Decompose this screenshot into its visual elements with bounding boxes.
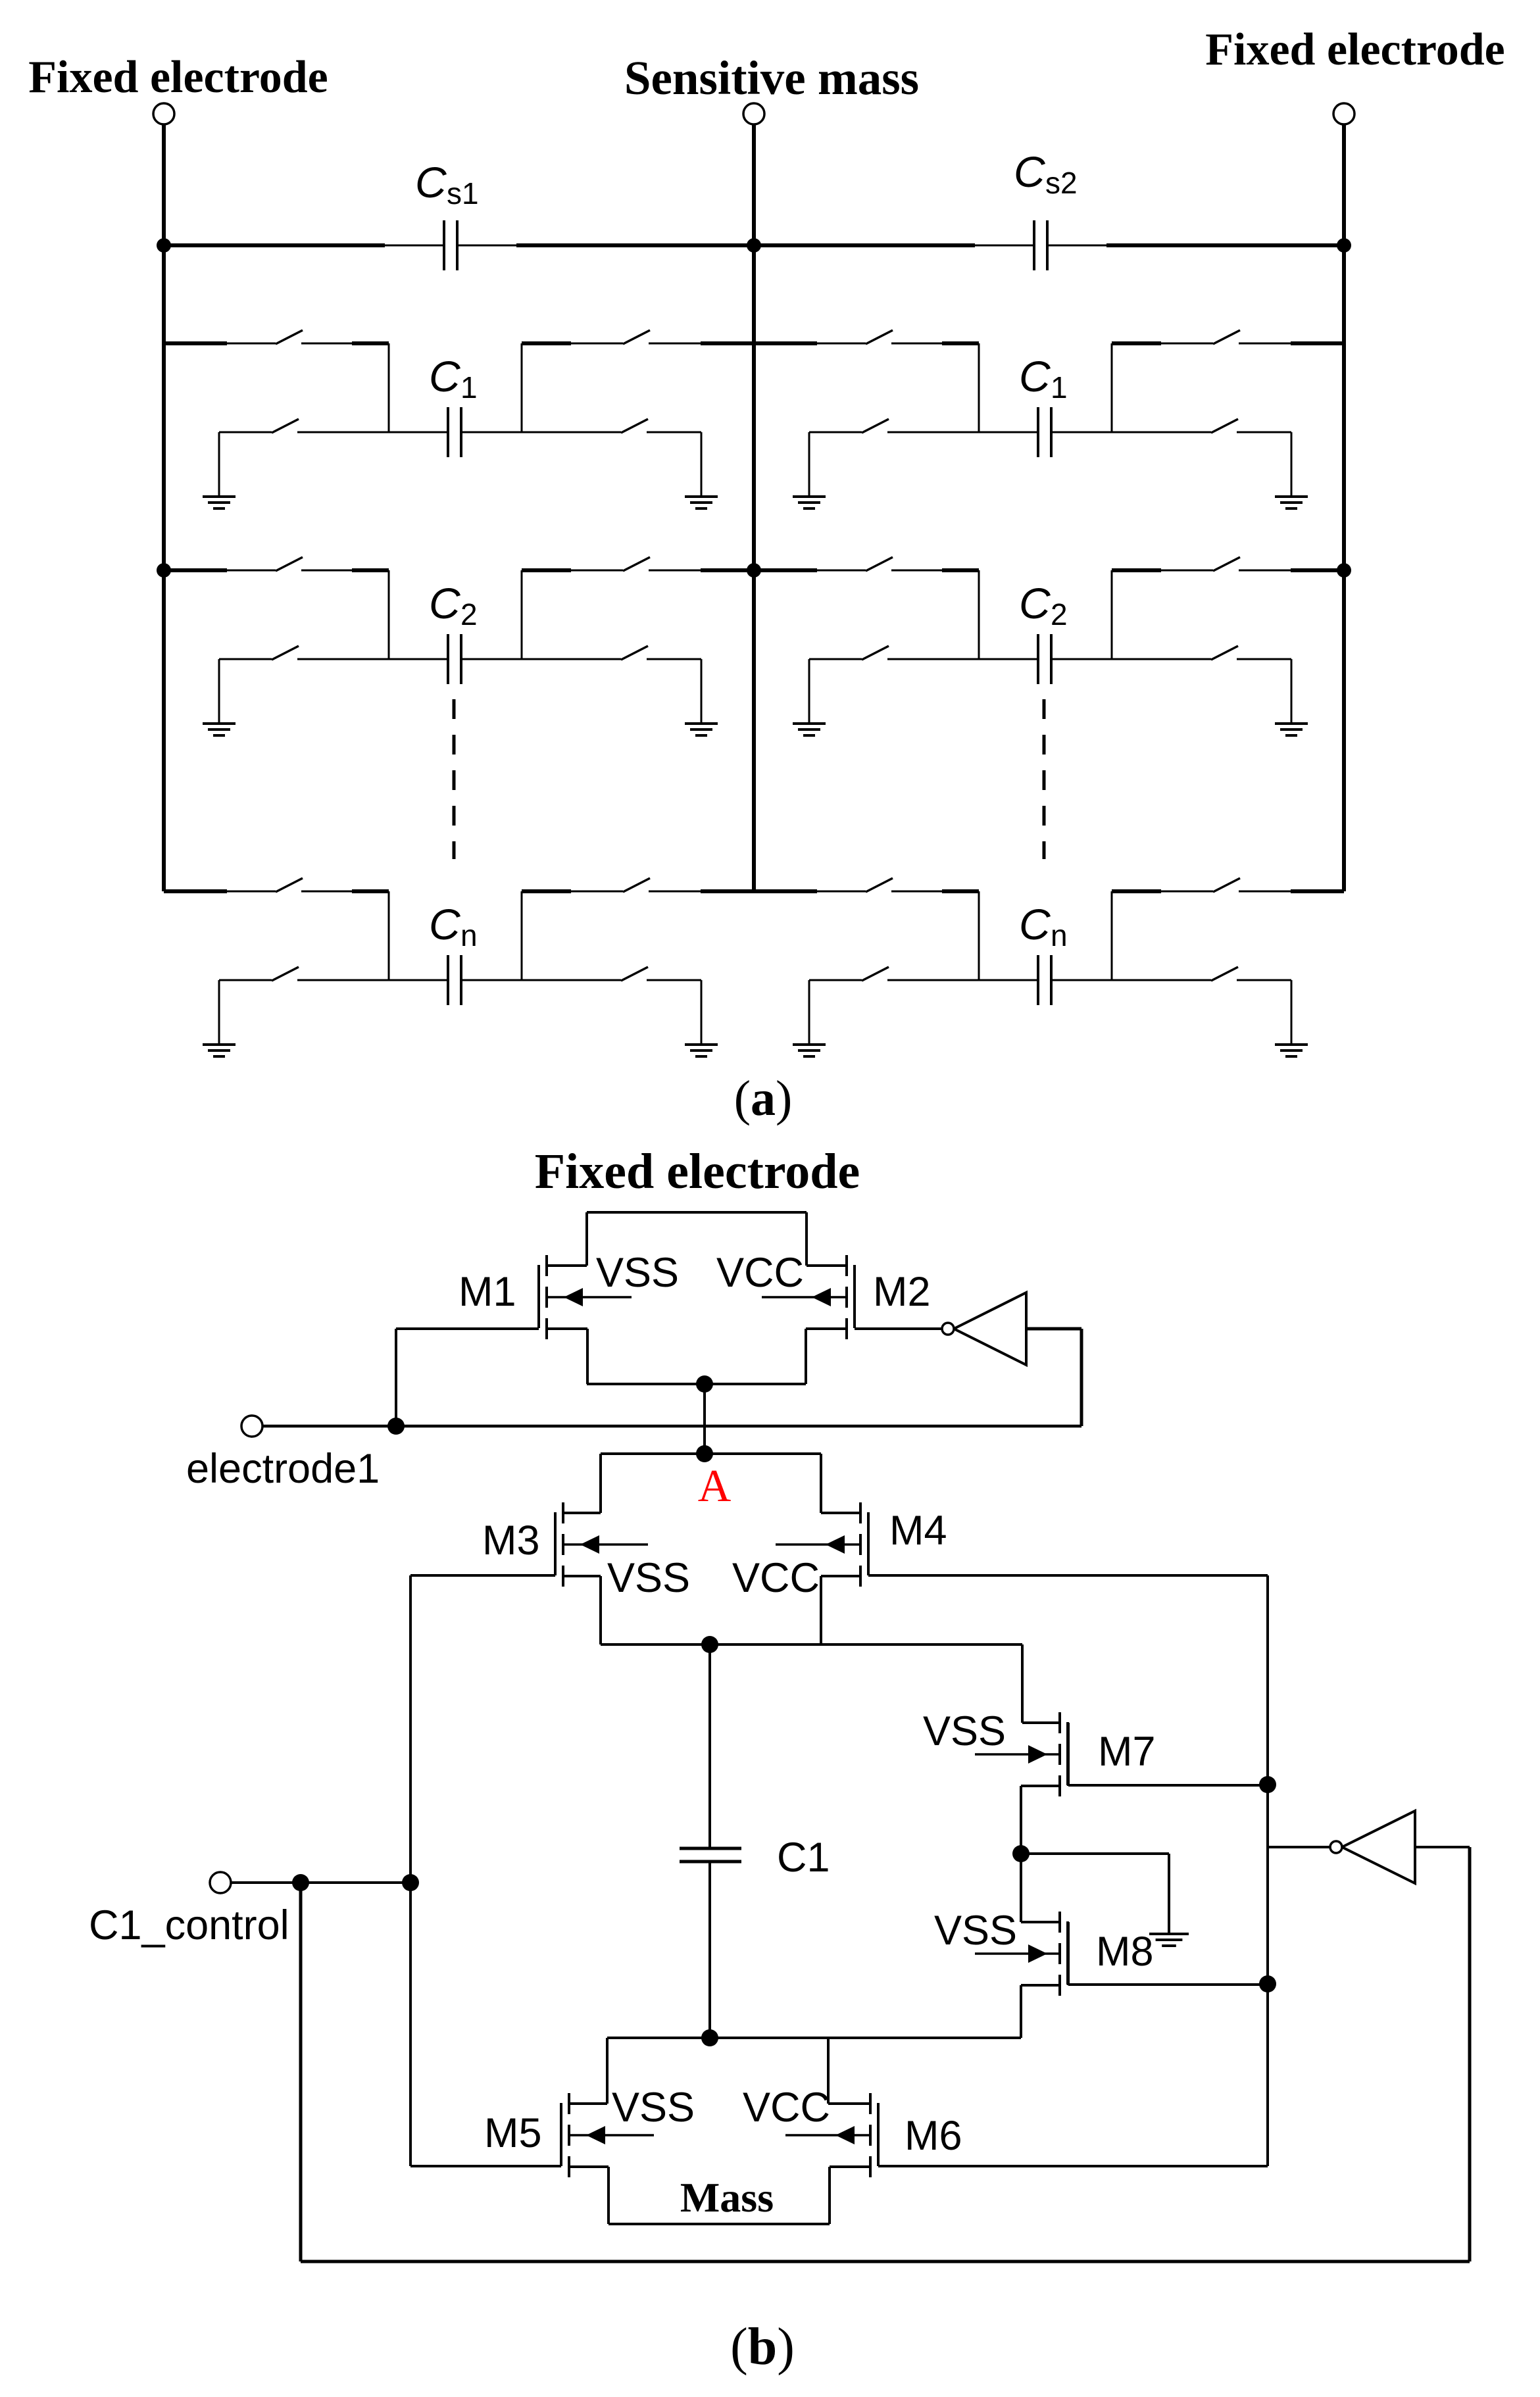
svg-text:M1: M1: [459, 1269, 516, 1315]
wire: row C2 left cell right ground stub: [701, 659, 703, 724]
ground (row C1 right cell right): [1275, 495, 1308, 498]
wire: inverter1 output: [1026, 1327, 1081, 1331]
wire: M7 drain drop from rail: [1021, 1644, 1024, 1723]
switch: row C1 right cell top-right switch: [1213, 330, 1240, 344]
wire: row Cn right cell top wire from bus: [754, 889, 817, 893]
wire: M7 gate wire: [1068, 1784, 1268, 1787]
junction node C1 top: [701, 1636, 718, 1653]
svg-text:M8: M8: [1096, 1929, 1154, 1975]
svg-text:(a): (a): [734, 1071, 793, 1126]
junction node C1_control loop: [292, 1874, 309, 1891]
switch: row C1 right cell top-left switch: [866, 330, 893, 344]
wire: M4 gate wire: [868, 1574, 1268, 1577]
wire: row C1 left cell top wire from bus: [164, 341, 227, 345]
terminal: left fixed electrode: [153, 103, 174, 124]
svg-text:C: C: [429, 352, 461, 401]
wire: row C1 left cell right drop: [521, 343, 523, 432]
wire: row Cn right cell capacitor wire left: [809, 979, 862, 981]
wire: row C1 right cell left drop: [978, 343, 980, 432]
svg-text:VSS: VSS: [612, 2085, 695, 2131]
switch: row Cn right cell top-right switch: [1213, 878, 1240, 892]
wire: row C2 right cell right drop: [1111, 570, 1113, 659]
svg-text:C: C: [1019, 352, 1051, 401]
terminal electrode1: [241, 1416, 262, 1437]
switch: row Cn left cell top-left switch: [276, 878, 303, 892]
capacitor C1 (right): [1037, 407, 1039, 457]
switch: row C1 left cell ground-left switch: [272, 419, 299, 433]
wire: row C1 left cell capacitor wire right: [461, 432, 621, 433]
wire: row Cn right cell left drop: [978, 891, 980, 980]
wire: row C1 right cell right ground stub: [1291, 432, 1293, 497]
wire: top bus thin at Cs2 right: [1047, 245, 1106, 247]
wire: top bus right thick segment: [1106, 243, 1344, 247]
wire: row Cn left cell top wire from bus: [164, 889, 227, 893]
svg-text:Sensitive mass: Sensitive mass: [624, 51, 919, 105]
svg-text:C1: C1: [777, 1835, 830, 1881]
svg-text:C1_control: C1_control: [89, 1902, 289, 1948]
svg-text:1: 1: [1051, 370, 1068, 405]
wire: row Cn right cell capacitor wire right: [1051, 979, 1211, 981]
wire: M8 source drop: [1020, 1985, 1022, 2038]
transistor M6: [869, 2093, 872, 2114]
capacitor C2 (left): [447, 634, 449, 684]
wire: M3 drain drop: [599, 1454, 602, 1513]
wire: M1 drain drop: [585, 1212, 588, 1266]
wire: C1 bottom lead: [708, 1862, 711, 2038]
wire: M3/M4 drain rail: [601, 1452, 821, 1455]
wire: M6 gate wire: [878, 2165, 1268, 2167]
svg-text:M7: M7: [1098, 1729, 1156, 1775]
ground (row C1 right cell left): [793, 495, 826, 498]
wire: row Cn left cell capacitor wire right: [461, 979, 621, 981]
wire: row C2 right cell left drop: [978, 570, 980, 659]
svg-text:1: 1: [460, 370, 478, 405]
svg-text:M6: M6: [905, 2113, 962, 2159]
svg-text:C: C: [1019, 579, 1051, 628]
wire: M2 drain drop: [805, 1212, 808, 1266]
wire: row C1 left cell right ground stub: [701, 432, 703, 497]
wire: row C1 right cell capacitor wire left: [809, 432, 862, 433]
wire: left electrode bus vertical: [162, 124, 166, 891]
wire: row Cn left cell right ground stub: [701, 980, 703, 1045]
capacitor C1 (left): [447, 407, 449, 457]
wire: row C1 right cell capacitor wire right: [1051, 432, 1211, 433]
svg-text:M5: M5: [484, 2110, 542, 2156]
ground (row Cn right cell right): [1275, 1043, 1308, 1046]
wire: row C2 right cell left ground stub: [808, 659, 810, 724]
svg-text:VSS: VSS: [607, 1555, 690, 1601]
svg-text:VCC: VCC: [743, 2085, 830, 2131]
junction node electrode1/M1 gate: [387, 1418, 405, 1435]
svg-text:M3: M3: [482, 1518, 540, 1564]
wire: row C2 right cell capacitor wire left: [809, 658, 862, 660]
wire: sensitive mass bus vertical: [752, 124, 756, 891]
wire: fixed electrode top rail: [587, 1211, 807, 1214]
switch: row C1 right cell ground-right switch: [1211, 419, 1238, 433]
wire: row Cn left cell right drop: [521, 891, 523, 980]
terminal: sensitive mass: [743, 103, 764, 124]
wire: row Cn right cell left ground stub: [808, 980, 810, 1045]
wire: mass bottom wire: [609, 2223, 830, 2225]
wire: row C1 left cell left ground stub: [218, 432, 220, 497]
wire: row Cn left cell capacitor wire left: [219, 979, 272, 981]
wire: row C2 right cell top wire from bus: [754, 568, 817, 572]
wire: row C1 right cell right drop: [1111, 343, 1113, 432]
wire: mass-side rail (C1 bottom): [607, 2037, 1021, 2039]
ground (row Cn left cell right): [685, 1043, 718, 1046]
switch: row C2 right cell ground-left switch: [862, 646, 889, 660]
svg-text:C: C: [429, 579, 461, 628]
wire: M1 gate drop to electrode1: [395, 1329, 397, 1426]
svg-text:C: C: [1014, 147, 1046, 196]
ground (row Cn right cell left): [793, 1043, 826, 1046]
svg-text:C: C: [415, 158, 447, 207]
transistor M3: [562, 1502, 564, 1523]
junction node at (249,867): [157, 563, 171, 578]
wire: row C1 left cell capacitor wire left: [219, 432, 272, 433]
junction node M8 gate: [1259, 1975, 1276, 1992]
wire: M5 drain drop: [606, 2038, 609, 2104]
wire: inverter1 feedback drop: [1080, 1329, 1083, 1426]
junction node at (1146,867): [747, 563, 761, 578]
switch: row C2 left cell ground-right switch: [621, 646, 648, 660]
capacitor Cn (left): [447, 955, 449, 1005]
transistor M8: [1058, 1912, 1061, 1933]
wire: top bus thin at Cs1 left: [385, 245, 444, 247]
svg-text:Fixed electrode: Fixed electrode: [535, 1144, 860, 1199]
wire: top bus mid thick segment: [516, 243, 975, 247]
svg-text:Mass: Mass: [680, 2174, 774, 2221]
ground (row C1 left cell left): [203, 495, 236, 498]
switch: row C1 right cell ground-left switch: [862, 419, 889, 433]
capacitor C1 (part b): [680, 1847, 741, 1850]
wire: row C2 left cell right drop: [521, 570, 523, 659]
wire: C1_control lead: [232, 1881, 410, 1884]
junction node M1/M2 sources: [696, 1375, 713, 1393]
switch: row C1 left cell ground-right switch: [621, 419, 648, 433]
capacitor Cs1: [443, 220, 445, 270]
terminal: right fixed electrode: [1333, 103, 1354, 124]
wire: right electrode bus vertical: [1342, 124, 1346, 891]
wire: inverter2 input drop: [1468, 1847, 1472, 2261]
wire: row C1 right cell left ground stub: [808, 432, 810, 497]
junction node at (2043,867): [1337, 563, 1351, 578]
wire: M7 source to M8 drain: [1020, 1786, 1022, 1922]
wire: row Cn left cell left drop: [388, 891, 390, 980]
svg-text:VSS: VSS: [596, 1250, 679, 1296]
capacitor Cs2: [1033, 220, 1035, 270]
wire: row C2 right cell capacitor wire right: [1051, 658, 1211, 660]
wire: M8 gate wire: [1068, 1983, 1268, 1986]
wire: M1 gate wire: [396, 1327, 539, 1330]
wire: C1 top lead: [708, 1644, 711, 1848]
wire: row Cn left cell top wire to mass bus: [522, 889, 571, 893]
wire: bottom loop: [301, 2260, 1470, 2263]
switch: row Cn left cell top-right switch: [623, 878, 650, 892]
dashed continuation (right column): [1043, 699, 1046, 859]
junction node C1 bottom: [701, 2029, 718, 2046]
ground (row C2 right cell right): [1275, 722, 1308, 725]
switch: row C2 left cell top-right switch: [623, 557, 650, 571]
wire: row C2 left cell capacitor wire right: [461, 658, 621, 660]
transistor M5: [568, 2093, 570, 2114]
svg-text:VCC: VCC: [732, 1555, 820, 1601]
ground (row Cn left cell left): [203, 1043, 236, 1046]
junction node at (1146,373): [747, 238, 761, 253]
wire: row C2 left cell top wire to mass bus: [522, 568, 571, 572]
wire: inverter2 input: [1415, 1846, 1470, 1848]
ground (row C2 left cell right): [685, 722, 718, 725]
svg-text:M2: M2: [873, 1269, 931, 1315]
svg-text:(b): (b): [730, 2318, 795, 2376]
wire: row Cn left cell left ground stub: [218, 980, 220, 1045]
wire: row C1 left cell top wire to mass bus: [522, 341, 571, 345]
junction node M7 gate: [1259, 1776, 1276, 1793]
svg-text:electrode1: electrode1: [186, 1446, 380, 1492]
wire: M4 drain drop: [820, 1454, 822, 1513]
switch: row Cn right cell top-left switch: [866, 878, 893, 892]
switch: row C2 left cell top-left switch: [276, 557, 303, 571]
switch: row C2 right cell top-left switch: [866, 557, 893, 571]
transistor M1: [545, 1255, 548, 1276]
wire: M5 gate wire: [410, 2165, 561, 2167]
ground (row C1 left cell right): [685, 495, 718, 498]
ground (row C2 right cell left): [793, 722, 826, 725]
wire: electrode1 line: [263, 1425, 1081, 1428]
wire: row C2 right cell top wire to mass bus: [1112, 568, 1161, 572]
wire: top bus left thick segment: [164, 243, 385, 247]
wire: top bus thin at Cs1 right: [457, 245, 516, 247]
wire: row Cn right cell right drop: [1111, 891, 1113, 980]
wire: top bus thin at Cs2 left: [975, 245, 1034, 247]
wire: M3/M4 source rail: [601, 1643, 1022, 1646]
wire: row C2 left cell capacitor wire left: [219, 658, 272, 660]
junction node A: [696, 1445, 713, 1462]
wire: node A vertical: [703, 1384, 706, 1454]
wire: row C2 left cell left drop: [388, 570, 390, 659]
wire: row C2 left cell top wire from bus: [164, 568, 227, 572]
svg-text:C: C: [1019, 900, 1051, 949]
switch: row C1 left cell top-right switch: [623, 330, 650, 344]
svg-text:Fixed electrode: Fixed electrode: [1205, 24, 1504, 75]
capacitor C2 (right): [1037, 634, 1039, 684]
switch: row C2 right cell ground-right switch: [1211, 646, 1238, 660]
wire: row C1 left cell left drop: [388, 343, 390, 432]
wire: M6 drain drop: [827, 2038, 830, 2104]
wire: row C2 left cell left ground stub: [218, 659, 220, 724]
switch: row Cn right cell ground-right switch: [1211, 967, 1238, 981]
svg-text:n: n: [460, 918, 478, 952]
switch: row C2 left cell ground-left switch: [272, 646, 299, 660]
inverter U2: [1342, 1811, 1415, 1883]
junction node at (249,373): [157, 238, 171, 253]
terminal C1_control: [210, 1872, 231, 1893]
junction node M7/M8 midpoint: [1012, 1845, 1030, 1862]
transistor M7: [1058, 1712, 1061, 1733]
svg-text:M4: M4: [889, 1508, 947, 1554]
wire: midpoint to ground jog: [1021, 1852, 1169, 1855]
inverter U1: [954, 1293, 1026, 1365]
svg-text:A: A: [698, 1461, 732, 1512]
transistor M4: [859, 1502, 862, 1523]
svg-text:Fixed electrode: Fixed electrode: [28, 52, 328, 103]
dashed continuation (left column): [453, 699, 456, 859]
wire: gate bus vertical (inverter2 output): [1266, 1575, 1269, 2166]
wire: inverter2 output to gate bus: [1268, 1846, 1330, 1848]
switch: row C2 right cell top-right switch: [1213, 557, 1240, 571]
svg-text:n: n: [1051, 918, 1068, 952]
wire: row Cn right cell right ground stub: [1291, 980, 1293, 1045]
wire: M3 gate wire: [410, 1574, 555, 1577]
svg-text:VCC: VCC: [716, 1250, 804, 1296]
wire: row C2 right cell right ground stub: [1291, 659, 1293, 724]
wire: loop down from C1_control: [299, 1883, 303, 2261]
switch: row Cn right cell ground-left switch: [862, 967, 889, 981]
wire: row C1 right cell top wire to mass bus: [1112, 341, 1161, 345]
transistor M2: [845, 1255, 848, 1276]
capacitor Cn (right): [1037, 955, 1039, 1005]
wire: C1_control vertical to M3/M5 gates: [409, 1575, 412, 2166]
svg-text:s1: s1: [447, 176, 479, 210]
switch: row Cn left cell ground-left switch: [272, 967, 299, 981]
switch: row C1 left cell top-left switch: [276, 330, 303, 344]
switch: row Cn left cell ground-right switch: [621, 967, 648, 981]
wire: M2 gate to inverter1: [855, 1327, 942, 1330]
ground (M7/M8 midpoint): [1149, 1933, 1189, 1935]
svg-text:VSS: VSS: [934, 1908, 1017, 1954]
svg-text:VSS: VSS: [923, 1708, 1006, 1754]
wire: row C1 right cell top wire from bus: [754, 341, 817, 345]
svg-text:s2: s2: [1045, 166, 1078, 200]
svg-text:2: 2: [460, 597, 478, 631]
svg-text:2: 2: [1051, 597, 1068, 631]
svg-text:C: C: [429, 900, 461, 949]
wire: M1/M2 source rail: [587, 1383, 806, 1385]
wire: row Cn right cell top wire to mass bus: [1112, 889, 1161, 893]
junction node at (2043,373): [1337, 238, 1351, 253]
junction node C1_control/gates: [402, 1874, 419, 1891]
ground (row C2 left cell left): [203, 722, 236, 725]
